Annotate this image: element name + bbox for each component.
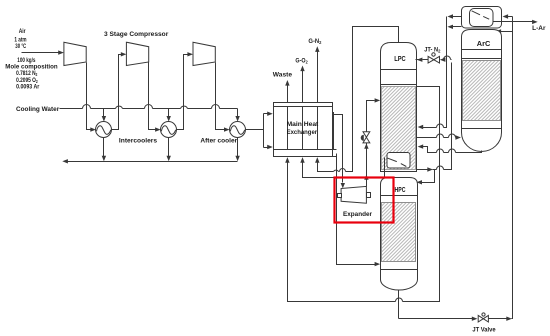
LPC column shell bbox=[381, 43, 417, 172]
svg-text:JT Valve: JT Valve bbox=[472, 327, 496, 334]
wire reboiler liquid N2 to JT-N2 riser bbox=[417, 60, 452, 170]
wire ArC bottoms return to LPC bbox=[423, 147, 482, 153]
valve PX on expander outlet bbox=[363, 132, 370, 138]
compressor C3 bbox=[193, 42, 215, 65]
svg-text:Intercoolers: Intercoolers bbox=[119, 138, 158, 145]
hop JT-N2 line over condenser return bbox=[444, 56, 451, 60]
ArC condenser heat exchanger bbox=[470, 9, 494, 27]
intercooler 1 bbox=[96, 122, 112, 138]
svg-text:ArC: ArC bbox=[477, 41, 491, 48]
hop cooling water over C2 outlet bbox=[145, 105, 153, 109]
expander Q1 bbox=[341, 186, 366, 203]
LPC reboiler-condenser bbox=[387, 153, 410, 169]
wire branch to expander feed bbox=[334, 115, 343, 183]
wire condenser return upper to LPC line bbox=[453, 16, 462, 18]
wire cooling water supply line bbox=[60, 108, 238, 110]
valve JT-N2 bbox=[416, 59, 420, 61]
wire cooling water tee into after cooler bbox=[237, 109, 239, 120]
wire G-O2 return from LPC sump to HX bbox=[303, 163, 385, 178]
after cooler bbox=[230, 122, 246, 138]
wire reflux to HPC dome bbox=[422, 170, 435, 183]
hop cooling water over C3 outlet bbox=[212, 105, 220, 109]
wire L-Ar product line bbox=[494, 21, 534, 23]
valve JT Valve bbox=[478, 315, 483, 322]
svg-text:Exchanger: Exchanger bbox=[287, 129, 318, 136]
wire cooling water tee into intercooler 1 bbox=[103, 109, 105, 120]
wire waste product out top bbox=[287, 83, 289, 103]
svg-text:Cooling Water: Cooling Water bbox=[16, 106, 60, 113]
wire compressor2 outlet down to intercooler 2 bbox=[149, 63, 159, 130]
svg-text:Waste: Waste bbox=[273, 71, 293, 78]
wire HX right side exit stub bbox=[333, 113, 334, 150]
LPC packing section bbox=[382, 87, 416, 170]
wire air feed into compressor 1 bbox=[22, 52, 60, 54]
svg-text:Air: Air bbox=[19, 28, 26, 35]
ArC bottom tray line bbox=[462, 128, 502, 130]
hop waste line over HPC bottom line bbox=[396, 298, 403, 302]
svg-text:L-Ar: L-Ar bbox=[532, 25, 546, 32]
wire waste return from LPC to HX bbox=[288, 87, 440, 302]
wire G-O2 tap from reboiler down bbox=[384, 158, 386, 178]
wire intercooler2 water outlet bbox=[168, 138, 170, 160]
ArC packing section bbox=[463, 61, 501, 121]
wire intercooler1 outlet up to compressor 2 bbox=[112, 55, 125, 130]
wire after cooler outlet to main heat exchanger manifold bbox=[246, 114, 271, 148]
node Main Heat Exchanger label bbox=[287, 121, 320, 136]
svg-text:30 °C: 30 °C bbox=[15, 42, 26, 50]
svg-text:HPC: HPC bbox=[395, 187, 406, 194]
wire cooling water tee into intercooler 2 bbox=[168, 109, 170, 120]
svg-text:Main Heat: Main Heat bbox=[287, 121, 320, 128]
svg-text:0.0093 Ar: 0.0093 Ar bbox=[16, 84, 40, 91]
svg-text:G-N2: G-N2 bbox=[308, 38, 321, 45]
hop G-N2 line over expander feed line bbox=[340, 169, 346, 172]
wire compressor1 outlet down to intercooler 1 bbox=[87, 63, 94, 130]
LPC second tray line bbox=[381, 84, 417, 86]
svg-text:After cooler: After cooler bbox=[200, 138, 237, 145]
svg-text:G-O2: G-O2 bbox=[295, 58, 308, 65]
wire G-N2 product out top bbox=[317, 49, 319, 103]
wire reflux branch into ArC dome bbox=[501, 31, 513, 33]
hop cooling water over C1 outlet bbox=[83, 105, 91, 109]
compressor C2 bbox=[126, 42, 148, 65]
HPC top tray line bbox=[381, 195, 418, 197]
wire crude argon feed from LPC to ArC bbox=[417, 137, 457, 139]
HPC bottom tray line bbox=[381, 269, 418, 271]
hop cooling water over riser to C3 bbox=[181, 106, 188, 108]
red highlight box around expander bbox=[335, 178, 394, 223]
ArC condenser shell bbox=[462, 7, 502, 29]
wire condenser return lower to LPC line bbox=[453, 26, 462, 28]
wire G-O2 product out top bbox=[302, 69, 304, 103]
wire compressor3 outlet down to after cooler bbox=[216, 63, 228, 130]
ArC column shell bbox=[462, 30, 502, 152]
hop cooling water over riser to C2 bbox=[116, 106, 123, 108]
ArC top tray line bbox=[462, 49, 502, 51]
wire G-N2 return from LPC top to HX bbox=[318, 27, 399, 172]
wire HPC bottom to JT Valve to ArC condenser bbox=[399, 17, 513, 319]
hop G-N2 line over liquid air line bbox=[334, 170, 339, 171]
ArC second tray line bbox=[462, 58, 502, 60]
HPC packing section bbox=[382, 203, 416, 262]
wire cooling water return line bbox=[65, 161, 238, 163]
wire after cooler water outlet bbox=[237, 138, 239, 160]
HPC column shell bbox=[381, 178, 418, 291]
wire condenser feed arrow into ArC condenser shell bbox=[508, 16, 513, 18]
wire expander outlet up through PX valve into LPC bbox=[367, 101, 375, 187]
svg-text:Expander: Expander bbox=[343, 211, 373, 218]
wire liquid air line down to HPC feed bbox=[337, 154, 376, 265]
svg-text:LPC: LPC bbox=[394, 56, 406, 63]
wire intercooler1 water outlet bbox=[103, 138, 105, 160]
wire intercooler2 outlet up to compressor 3 bbox=[177, 55, 191, 130]
LPC top tray line bbox=[381, 69, 417, 71]
main heat exchanger U1 bbox=[274, 103, 333, 157]
svg-text:3 Stage Compressor: 3 Stage Compressor bbox=[104, 31, 169, 38]
compressor C1 bbox=[64, 42, 86, 65]
hop condenser return over waste line bbox=[437, 124, 444, 127]
intercooler 2 bbox=[161, 122, 177, 138]
svg-text:JT- N2: JT- N2 bbox=[424, 47, 440, 54]
node Air feed label bbox=[5, 28, 57, 90]
wire condenser return line down into LPC bbox=[423, 17, 447, 128]
